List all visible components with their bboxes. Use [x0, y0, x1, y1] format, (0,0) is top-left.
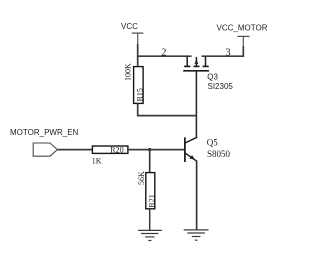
wire R20 to Q5 base: [128, 149, 185, 151]
ground under Q5: [184, 230, 209, 240]
svg-text:56K: 56K: [137, 171, 146, 185]
svg-text:R21: R21: [147, 194, 156, 207]
svg-text:100K: 100K: [123, 63, 132, 81]
svg-text:R20: R20: [110, 145, 123, 154]
svg-text:Q5: Q5: [207, 137, 218, 147]
ground under R21: [138, 230, 162, 240]
port MOTOR_PWR_EN: [10, 128, 79, 156]
svg-text:Q3: Q3: [207, 72, 218, 81]
power symbol VCC_MOTOR: [217, 24, 268, 47]
svg-text:SI2305: SI2305: [208, 82, 234, 91]
svg-text:1K: 1K: [92, 157, 102, 166]
svg-text:VCC_MOTOR: VCC_MOTOR: [217, 24, 268, 33]
wire Q5 emitter down: [196, 161, 198, 230]
wire R21 to ground: [149, 209, 151, 231]
svg-text:2: 2: [161, 48, 166, 59]
resistor R20: [92, 145, 128, 154]
wire gate down to collector: [195, 71, 197, 138]
wire VCC stem to node 2: [137, 44, 139, 56]
power symbol VCC: [121, 22, 143, 45]
svg-text:S8050: S8050: [207, 149, 231, 159]
svg-text:3: 3: [225, 48, 230, 59]
svg-text:MOTOR_PWR_EN: MOTOR_PWR_EN: [10, 128, 79, 137]
wire top rail left (node 2): [137, 55, 192, 57]
svg-text:R15: R15: [136, 88, 145, 101]
resistor R21: [146, 173, 157, 209]
wire R15 to gate: [137, 115, 197, 117]
junction node: [148, 148, 151, 151]
wire R15 bottom: [137, 103, 139, 116]
transistor Q3 (P-MOSFET SI2305): [183, 56, 209, 70]
resistor R15: [134, 67, 145, 104]
wire top rail right (node 3): [202, 55, 245, 57]
wire VCC_MOTOR stem: [242, 46, 244, 57]
wire node 2 down to R15: [137, 55, 139, 67]
transistor Q5 (NPN S8050): [185, 137, 197, 162]
svg-text:VCC: VCC: [121, 22, 138, 31]
wire port to R20: [57, 149, 93, 151]
wire junction down to R21: [149, 149, 151, 173]
